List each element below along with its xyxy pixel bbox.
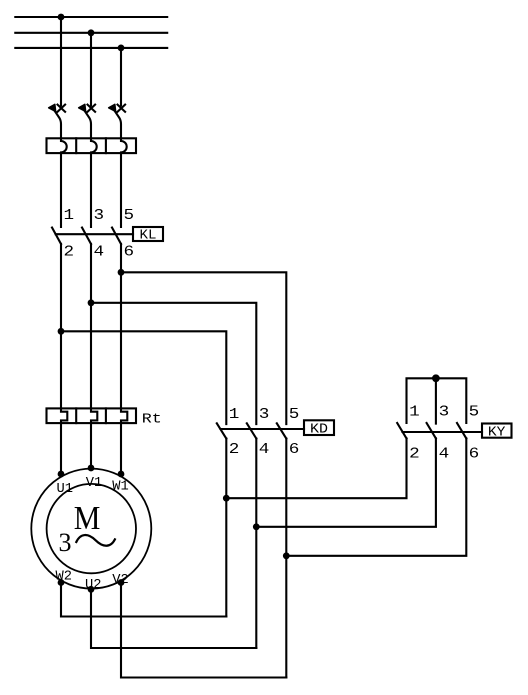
contactor KL contact pole 2	[82, 228, 91, 244]
node L2 tap junction	[88, 29, 95, 36]
svg-text:3: 3	[439, 404, 450, 421]
svg-text:4: 4	[259, 441, 270, 458]
svg-text:2: 2	[64, 244, 75, 261]
wire phase 2 KL to motor with Rt heater jog	[91, 244, 97, 468]
wire tap phase1 to KD pin1	[61, 331, 226, 424]
node terminal U2	[88, 586, 95, 593]
wire KY middle feed	[435, 378, 437, 423]
wire L2 drop	[90, 33, 92, 106]
node L1 tap junction	[58, 14, 65, 21]
contactor KD contact pole 2	[247, 423, 256, 438]
node terminal U1	[58, 471, 65, 478]
fuse holder box row	[47, 138, 137, 153]
wire KD pin6 down to V2 run	[285, 439, 287, 678]
node L3 tap junction	[118, 45, 125, 52]
svg-text:1: 1	[64, 207, 75, 224]
contactor KY contact pole 3	[457, 423, 466, 438]
wire KY pin2 to KD pin2	[226, 438, 406, 498]
svg-text:5: 5	[289, 406, 300, 423]
motor M outer circle	[31, 469, 151, 589]
wire KY pin6 to KD pin6	[286, 438, 466, 555]
svg-text:W2: W2	[56, 569, 73, 585]
svg-text:U2: U2	[85, 577, 102, 593]
svg-text:M: M	[74, 500, 101, 537]
node KY star bridge junction	[432, 374, 440, 382]
svg-text:W1: W1	[112, 479, 129, 495]
fuse-switch pole 3	[109, 104, 127, 227]
node junction KD2-KY2	[223, 495, 230, 502]
node junction KD4-KY4	[253, 523, 260, 530]
wire phase 3 KL to motor with Rt heater jog	[121, 244, 127, 474]
svg-text:5: 5	[124, 207, 135, 224]
svg-text:6: 6	[289, 441, 300, 458]
svg-text:KL: KL	[140, 227, 157, 243]
wire KY pin4 to KD pin4	[256, 438, 436, 526]
contactor KL contact pole 1	[52, 228, 61, 244]
wire tap phase2 to KD pin3	[91, 303, 256, 424]
node tap phase2 to KD	[88, 299, 95, 306]
node terminal V2	[118, 579, 125, 586]
contactor KY contact pole 2	[427, 423, 436, 438]
bus line L2	[15, 32, 167, 34]
svg-text:3: 3	[59, 528, 72, 557]
contactor KY contact pole 1	[397, 423, 406, 438]
node tap phase3 to KD	[118, 269, 125, 276]
svg-text:2: 2	[229, 441, 240, 458]
wire phase 1 KL to motor with Rt heater jog	[61, 244, 67, 474]
svg-text:6: 6	[124, 244, 135, 261]
wire W2 to KD pin2	[61, 583, 226, 617]
svg-text:2: 2	[409, 446, 420, 463]
contactor KL label box	[133, 227, 163, 243]
bus line L3	[15, 47, 167, 49]
node terminal V1	[88, 465, 95, 472]
node terminal W2	[58, 579, 65, 586]
wire KY star bridge	[407, 378, 467, 423]
node terminal W1	[118, 471, 125, 478]
wire KD pin4 down to U2 run	[255, 439, 257, 649]
contactor KD contact pole 1	[217, 423, 227, 438]
contactor KY label box	[482, 424, 512, 441]
wire L1 drop	[60, 17, 62, 105]
svg-text:U1: U1	[57, 481, 74, 497]
contactor KD label box	[304, 420, 334, 437]
fuse-switch pole 1	[49, 104, 67, 227]
fuse-switch pole 2	[79, 104, 97, 227]
thermal relay Rt box row	[47, 408, 137, 423]
wire V2 to KD pin6	[121, 583, 286, 678]
svg-text:5: 5	[469, 404, 480, 421]
svg-text:KY: KY	[488, 424, 506, 440]
contactor KD linkage	[221, 428, 305, 430]
contactor KY linkage	[403, 431, 483, 433]
svg-text:Rt: Rt	[142, 411, 162, 427]
contactor KD contact pole 3	[277, 423, 287, 438]
svg-text:6: 6	[469, 446, 480, 463]
contactor KL linkage	[56, 233, 133, 235]
bus line L1	[15, 16, 167, 18]
wire KD pin2 down to W2 run	[225, 439, 227, 617]
svg-text:3: 3	[94, 207, 105, 224]
wire L3 drop	[120, 48, 122, 106]
svg-text:KD: KD	[310, 422, 328, 438]
node tap phase1 to KD	[58, 328, 65, 335]
svg-text:V1: V1	[86, 475, 103, 491]
motor M inner circle	[47, 484, 136, 573]
svg-text:4: 4	[94, 244, 105, 261]
contactor KL contact pole 3	[112, 228, 121, 244]
wire tap phase3 to KD pin5	[121, 272, 286, 424]
svg-text:1: 1	[229, 406, 240, 423]
node junction KD6-KY6	[283, 552, 290, 559]
svg-text:3: 3	[259, 406, 270, 423]
svg-text:1: 1	[409, 404, 420, 421]
wire U2 to KD pin4	[91, 589, 256, 648]
svg-text:4: 4	[439, 446, 450, 463]
label ~ phase symbol	[76, 535, 115, 546]
